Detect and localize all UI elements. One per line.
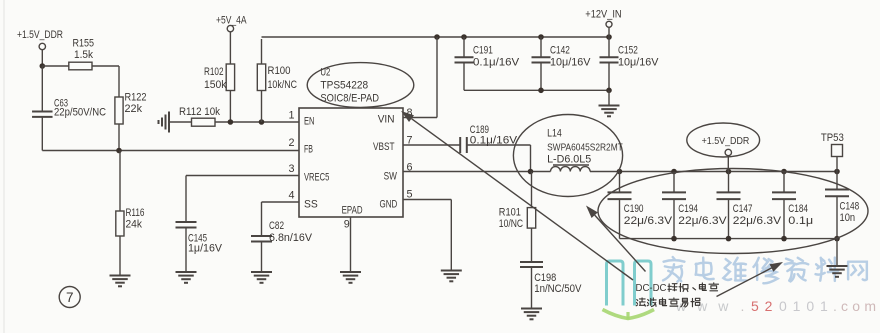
svg-text:+5V_4A: +5V_4A bbox=[216, 15, 247, 27]
svg-text:C194: C194 bbox=[678, 203, 698, 215]
svg-text:R102: R102 bbox=[204, 66, 224, 78]
svg-text:+1.5V_DDR: +1.5V_DDR bbox=[17, 29, 63, 41]
svg-text:C148: C148 bbox=[840, 200, 860, 212]
svg-text:DC-DC: DC-DC bbox=[636, 283, 667, 294]
svg-text:FB: FB bbox=[304, 144, 313, 156]
svg-text:.: . bbox=[741, 298, 745, 314]
svg-text:1μ/16V: 1μ/16V bbox=[188, 243, 223, 255]
svg-text:C191: C191 bbox=[473, 45, 493, 57]
svg-text:C147: C147 bbox=[733, 203, 753, 215]
svg-text:0101: 0101 bbox=[779, 298, 834, 314]
svg-text:1n/NC/50V: 1n/NC/50V bbox=[534, 283, 582, 295]
svg-text:22μ/6.3V: 22μ/6.3V bbox=[733, 215, 782, 227]
svg-text:6.8n/16V: 6.8n/16V bbox=[269, 232, 313, 244]
svg-text:TP53: TP53 bbox=[821, 132, 844, 144]
svg-text:22k: 22k bbox=[125, 103, 143, 115]
svg-text:VBST: VBST bbox=[373, 141, 395, 153]
svg-text:C152: C152 bbox=[618, 45, 638, 57]
svg-text:2: 2 bbox=[289, 137, 295, 149]
svg-text:L14: L14 bbox=[547, 128, 562, 140]
svg-text:24k: 24k bbox=[126, 219, 143, 231]
svg-text:9: 9 bbox=[344, 219, 350, 231]
svg-text:1: 1 bbox=[289, 110, 295, 122]
svg-text:.: . bbox=[833, 298, 837, 314]
svg-text:C184: C184 bbox=[788, 203, 808, 215]
svg-text:22μ/6.3V: 22μ/6.3V bbox=[678, 215, 727, 227]
svg-text:R155: R155 bbox=[73, 37, 95, 49]
svg-text:5: 5 bbox=[407, 188, 413, 200]
svg-text:7: 7 bbox=[66, 290, 74, 305]
svg-text:+12V_IN: +12V_IN bbox=[585, 9, 621, 21]
svg-text:10/NC: 10/NC bbox=[499, 218, 523, 230]
svg-text:10k/NC: 10k/NC bbox=[268, 79, 298, 91]
svg-text:com: com bbox=[841, 298, 880, 314]
svg-text:SOIC8/E-PAD: SOIC8/E-PAD bbox=[320, 92, 379, 104]
svg-text:3: 3 bbox=[289, 163, 295, 175]
svg-text:R112 10k: R112 10k bbox=[179, 106, 221, 118]
svg-text:22p/50V/NC: 22p/50V/NC bbox=[54, 107, 106, 119]
svg-text:GND: GND bbox=[380, 198, 398, 210]
svg-text:0.1μ/16V: 0.1μ/16V bbox=[473, 56, 520, 68]
svg-text:SS: SS bbox=[304, 198, 318, 210]
svg-text:0.1μ/16V: 0.1μ/16V bbox=[470, 134, 518, 146]
svg-text:EN: EN bbox=[304, 116, 315, 128]
svg-text:L-D6.0L5: L-D6.0L5 bbox=[547, 154, 591, 166]
svg-text:150k: 150k bbox=[204, 79, 227, 91]
svg-text:1.5k: 1.5k bbox=[74, 49, 94, 61]
svg-text:TPS54228: TPS54228 bbox=[320, 79, 368, 91]
svg-text:C82: C82 bbox=[269, 220, 284, 232]
svg-text:R122: R122 bbox=[125, 92, 147, 104]
svg-text:R100: R100 bbox=[268, 65, 291, 77]
svg-text:SWPA6045S2R2MT: SWPA6045S2R2MT bbox=[547, 142, 623, 153]
svg-text:4: 4 bbox=[289, 190, 295, 202]
svg-text:10n: 10n bbox=[840, 212, 856, 224]
svg-text:U2: U2 bbox=[320, 67, 330, 79]
svg-text:10μ/16V: 10μ/16V bbox=[550, 56, 591, 68]
svg-text:C142: C142 bbox=[550, 45, 570, 57]
svg-text:R101: R101 bbox=[499, 207, 521, 219]
svg-text:10μ/16V: 10μ/16V bbox=[618, 56, 659, 68]
svg-text:VIN: VIN bbox=[378, 114, 395, 126]
svg-text:EPAD: EPAD bbox=[342, 205, 363, 217]
svg-text:R116: R116 bbox=[126, 207, 145, 219]
svg-text:22μ/6.3V: 22μ/6.3V bbox=[624, 215, 673, 227]
svg-text:+1.5V_DDR: +1.5V_DDR bbox=[702, 136, 750, 147]
svg-text:SW: SW bbox=[384, 170, 398, 182]
svg-text:52: 52 bbox=[751, 298, 778, 314]
svg-text:0.1μ: 0.1μ bbox=[788, 215, 813, 227]
svg-text:VREC5: VREC5 bbox=[304, 172, 329, 184]
svg-text:C190: C190 bbox=[624, 203, 644, 215]
